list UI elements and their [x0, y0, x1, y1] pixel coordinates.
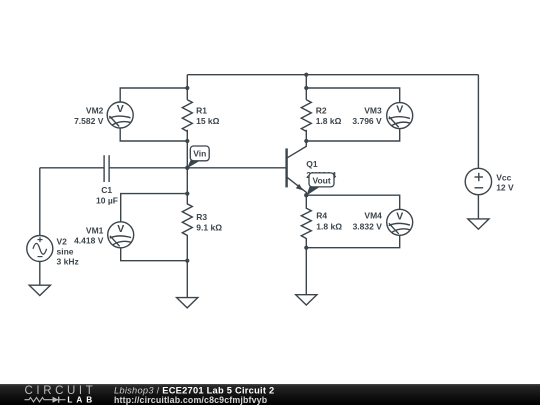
wire VM2 top — [120, 88, 187, 102]
wire VM3 bottom — [306, 129, 399, 141]
wire R2 column top — [305, 75, 307, 100]
svg-text:R3: R3 — [196, 212, 207, 222]
svg-text:R4: R4 — [316, 211, 327, 221]
node Vout junction — [304, 193, 308, 197]
junction node R4/VM4 bottom — [304, 246, 308, 250]
junction node R3/VM1 bottom — [185, 259, 189, 263]
wire main signal rail — [40, 167, 104, 169]
wire VM3 top — [306, 88, 399, 103]
svg-text:sine: sine — [57, 246, 74, 256]
junction node R1/VM2 top — [185, 86, 189, 90]
svg-text:10 µF: 10 µF — [96, 196, 118, 206]
svg-text:Lbishop3 / ECE2701 Lab 5 Circu: Lbishop3 / ECE2701 Lab 5 Circuit 2 — [114, 385, 274, 395]
svg-text:R1: R1 — [196, 106, 207, 116]
wire R4 to ground — [305, 248, 307, 295]
wire R2 bottom lead — [305, 130, 307, 141]
junction node R2/VM3 bottom — [304, 139, 308, 143]
wire capacitor to base — [109, 167, 287, 169]
svg-text:12 V: 12 V — [496, 183, 514, 193]
svg-text:LAB: LAB — [67, 396, 96, 405]
voltmeter VM4 — [387, 209, 413, 235]
voltmeter VM2 — [107, 102, 133, 128]
node Vin junction — [185, 166, 189, 170]
wire R1 bottom lead — [186, 130, 188, 168]
svg-text:VM3: VM3 — [364, 106, 382, 116]
capacitor C1 — [103, 155, 105, 182]
logo diode — [53, 397, 59, 403]
svg-text:Q1: Q1 — [306, 159, 318, 169]
svg-text:15 kΩ: 15 kΩ — [196, 116, 220, 126]
voltmeter VM3 — [387, 103, 413, 129]
wire VM1 bottom — [121, 248, 188, 261]
wire Vin node to R3 — [186, 168, 188, 194]
wire VM1 top — [121, 194, 188, 222]
svg-text:1.8 kΩ: 1.8 kΩ — [316, 221, 342, 231]
ground below R4 — [296, 295, 317, 305]
node Vout flag — [306, 173, 334, 196]
resistor R4 — [301, 195, 311, 248]
svg-text:Vin: Vin — [193, 149, 206, 159]
wire Vcc bottom lead — [477, 195, 479, 219]
transistor Q1 collector — [287, 141, 307, 158]
junction node R1/VM2 bottom — [185, 139, 189, 143]
svg-text:V: V — [396, 104, 403, 116]
ground below Vcc — [468, 219, 489, 229]
svg-text:R2: R2 — [316, 106, 327, 116]
transistor Q1 bar — [285, 148, 287, 187]
node Vin flag — [187, 146, 209, 168]
transistor Q1 emitter arrow — [296, 184, 303, 191]
svg-text:C1: C1 — [101, 185, 112, 195]
svg-text:V: V — [117, 103, 124, 115]
svg-text:V2: V2 — [57, 236, 68, 246]
svg-text:7.582 V: 7.582 V — [74, 116, 104, 126]
transistor Q1 emitter — [287, 177, 307, 195]
ground below R3 — [177, 298, 198, 308]
resistor R2 — [301, 100, 311, 132]
footer banner — [0, 384, 540, 405]
junction node R2/VM3 top — [304, 86, 308, 90]
svg-text:4.418 V: 4.418 V — [74, 236, 104, 246]
logo resistor zigzag — [25, 398, 50, 402]
wire VM4 top — [306, 195, 399, 209]
wire Vcc top lead — [477, 75, 479, 169]
wire R3 to ground — [186, 261, 188, 298]
ground below V2 — [29, 285, 50, 295]
svg-text:3.832 V: 3.832 V — [353, 221, 383, 231]
svg-text:3 kHz: 3 kHz — [57, 256, 79, 266]
resistor R3 — [182, 194, 192, 261]
svg-text:http://circuitlab.com/c8c9cfmj: http://circuitlab.com/c8c9cfmjbfvyb — [114, 395, 268, 405]
svg-text:VM1: VM1 — [86, 225, 104, 235]
wire VM4 bottom — [306, 235, 399, 247]
svg-text:V: V — [117, 223, 124, 235]
svg-text:VM2: VM2 — [86, 106, 104, 116]
source V2 sine — [27, 236, 53, 262]
svg-text:Vcc: Vcc — [496, 173, 511, 183]
wire VM2 bottom — [120, 128, 187, 141]
wire V2 bottom lead — [39, 262, 41, 286]
source Vcc — [465, 168, 491, 194]
wire V2 top lead — [39, 168, 41, 236]
wire top rail — [187, 74, 478, 76]
svg-text:VM4: VM4 — [364, 211, 382, 221]
wire R1 column top — [186, 75, 188, 100]
svg-text:1.8 kΩ: 1.8 kΩ — [316, 116, 342, 126]
junction node R3/VM1 top — [185, 192, 189, 196]
svg-text:Vout: Vout — [312, 175, 330, 185]
voltmeter VM1 — [108, 222, 134, 248]
resistor R1 — [182, 100, 192, 132]
svg-text:9.1 kΩ: 9.1 kΩ — [196, 222, 222, 232]
junction node R2 top — [304, 73, 308, 77]
svg-text:3.796 V: 3.796 V — [352, 116, 382, 126]
svg-text:V: V — [396, 210, 403, 222]
